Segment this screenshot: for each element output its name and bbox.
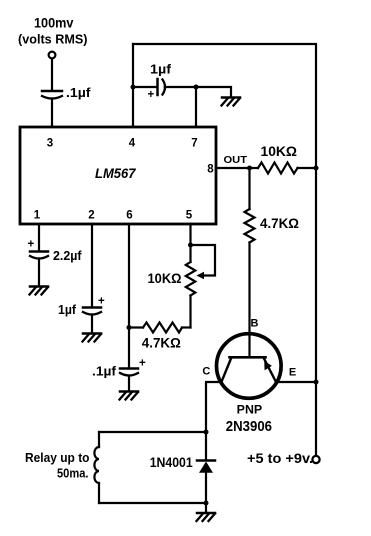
node terminal +V xyxy=(312,456,319,463)
capacitor C3 2.2uf xyxy=(30,252,48,287)
svg-text:PNP: PNP xyxy=(237,403,263,417)
node junction rail/R1 xyxy=(314,166,319,171)
capacitor C5 .1uf xyxy=(120,369,138,392)
svg-text:4.7KΩ: 4.7KΩ xyxy=(260,216,299,231)
svg-text:1: 1 xyxy=(34,210,41,222)
svg-text:7: 7 xyxy=(191,138,197,150)
ground pin2 xyxy=(83,334,102,342)
svg-text:50ma.: 50ma. xyxy=(57,466,89,481)
svg-text:1µf: 1µf xyxy=(58,302,77,317)
diode D1 1N4001 xyxy=(197,432,215,503)
svg-text:1µf: 1µf xyxy=(150,62,172,77)
capacitor C4 1uf xyxy=(83,308,101,334)
svg-text:+: + xyxy=(148,89,155,101)
svg-text:+: + xyxy=(98,296,105,308)
svg-text:Relay up to: Relay up to xyxy=(25,450,90,465)
ground bottom xyxy=(197,513,216,521)
wire top rail xyxy=(133,44,316,456)
node junction diode/ground xyxy=(204,501,209,506)
ground pin6 xyxy=(120,392,139,400)
svg-text:3: 3 xyxy=(47,138,53,150)
svg-text:4.7KΩ: 4.7KΩ xyxy=(142,336,181,351)
wire pin6 down xyxy=(128,224,130,368)
emitter arrow xyxy=(264,361,272,371)
svg-text:8: 8 xyxy=(207,164,214,176)
svg-text:10KΩ: 10KΩ xyxy=(261,144,298,159)
ground top right xyxy=(222,98,241,106)
wire pin4 riser xyxy=(132,44,134,127)
wire to top ground xyxy=(196,87,231,97)
svg-text:B: B xyxy=(251,318,259,330)
wire input down xyxy=(51,59,53,90)
svg-text:+: + xyxy=(28,239,35,251)
svg-text:5: 5 xyxy=(186,210,193,222)
capacitor C1 .1uf input xyxy=(42,91,62,127)
base bar xyxy=(230,356,266,359)
relay coil K1 xyxy=(94,432,99,503)
node junction collector/relay/diode xyxy=(204,430,209,435)
svg-text:OUT: OUT xyxy=(224,154,248,166)
node junction rail/emitter xyxy=(314,380,319,385)
collector segment xyxy=(221,359,231,384)
wire pin5 down xyxy=(189,224,191,262)
svg-text:4: 4 xyxy=(129,138,136,150)
svg-text:C: C xyxy=(202,366,210,378)
svg-text:1N4001: 1N4001 xyxy=(150,455,193,470)
svg-text:2.2µf: 2.2µf xyxy=(53,248,82,263)
transistor Q1 2N3906 xyxy=(217,334,282,399)
node junction pin5/pot xyxy=(188,243,193,248)
wire pin7 riser xyxy=(195,87,197,127)
wire collector xyxy=(206,382,222,432)
node OUT junction xyxy=(247,166,252,171)
wire relay top xyxy=(99,431,206,433)
svg-text:100mv: 100mv xyxy=(34,16,74,31)
ground pin1 xyxy=(30,287,49,295)
wire pin1 down xyxy=(38,224,40,251)
svg-text:E: E xyxy=(289,367,296,379)
op-amp box LM567 U1 xyxy=(20,127,216,224)
svg-text:+: + xyxy=(139,358,146,370)
emitter segment xyxy=(264,359,277,384)
resistor R3 4.7K horizontal xyxy=(129,323,191,333)
node junction pin4/cap xyxy=(131,85,136,90)
node input terminal xyxy=(49,52,56,59)
svg-text:(volts RMS): (volts RMS) xyxy=(18,32,88,47)
wire emitter xyxy=(276,381,316,383)
svg-text:.1µf: .1µf xyxy=(66,85,91,100)
capacitor C2 1uf top xyxy=(133,79,196,95)
wire pin2 down xyxy=(91,224,93,307)
base line redraw inside circle xyxy=(248,335,250,357)
node junction pin7/cap xyxy=(194,85,199,90)
potentiometer R4 10K xyxy=(186,245,215,328)
wire pin8 OUT xyxy=(216,167,250,169)
node junction pin6/R3 xyxy=(127,325,132,330)
resistor R1 10K xyxy=(250,163,317,174)
wire relay bottom xyxy=(99,502,206,504)
svg-text:+5 to +9v.: +5 to +9v. xyxy=(247,451,313,466)
svg-text:6: 6 xyxy=(126,210,132,222)
wire ground stub bottom xyxy=(205,503,207,513)
svg-text:.1µf: .1µf xyxy=(92,364,117,379)
svg-text:10KΩ: 10KΩ xyxy=(148,271,182,286)
resistor R2 4.7K vertical xyxy=(245,168,255,357)
svg-text:2N3906: 2N3906 xyxy=(226,418,272,435)
svg-text:LM567: LM567 xyxy=(95,165,137,181)
svg-text:2: 2 xyxy=(88,210,94,222)
